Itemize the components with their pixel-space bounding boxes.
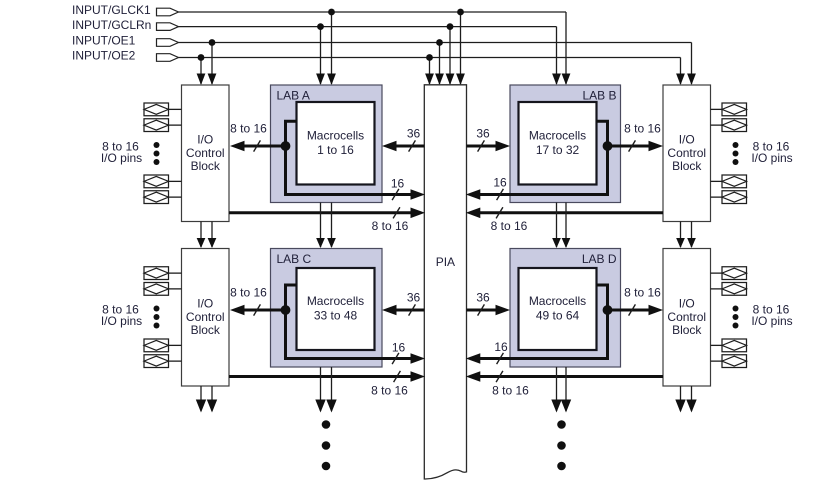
svg-text:Block: Block bbox=[672, 323, 702, 337]
slash on LAB D 16 bus bbox=[497, 353, 504, 364]
svg-text:16: 16 bbox=[493, 176, 507, 190]
junction dot GCLRn to PIA bbox=[447, 23, 454, 30]
bus 8-to-16 lower-right I/O block to PIA bbox=[466, 371, 663, 382]
svg-text:Macrocells: Macrocells bbox=[307, 294, 364, 308]
svg-text:LAB B: LAB B bbox=[582, 89, 616, 103]
bus 36 PIA to LAB D bbox=[467, 305, 511, 316]
wire upper-left pin 4 to I/O block bbox=[169, 196, 182, 198]
svg-text:I/O pins: I/O pins bbox=[101, 314, 142, 328]
svg-text:36: 36 bbox=[476, 291, 490, 305]
svg-text:36: 36 bbox=[407, 126, 421, 140]
I/O pin symbol upper-left 4 bbox=[144, 191, 169, 204]
wire INPUT/OE1 horizontal bbox=[179, 42, 692, 44]
svg-text:Macrocells: Macrocells bbox=[307, 128, 364, 142]
I/O Control Block top-right bbox=[663, 85, 711, 222]
I/O pin symbol upper-right 3 bbox=[722, 175, 747, 188]
LAB C bbox=[271, 249, 383, 368]
I/O pin symbol lower-right 3 bbox=[722, 339, 747, 352]
wire left I/O pass-down x=212 bbox=[208, 222, 217, 249]
svg-text:8 to 16: 8 to 16 bbox=[372, 219, 409, 233]
slash on 36 bus to LAB A bbox=[409, 140, 416, 151]
slash on LAB C 16 bus bbox=[392, 353, 399, 364]
wire branch GLCK1 to LAB A bbox=[327, 12, 336, 85]
ellipsis dots below LAB D bbox=[557, 420, 566, 470]
wire branch OE2 to PIA bbox=[425, 58, 434, 86]
slash on LAB B 8-to-16 bus bbox=[629, 140, 636, 151]
I/O pin symbol lower-left 2 bbox=[144, 283, 169, 296]
svg-text:LAB C: LAB C bbox=[277, 252, 312, 266]
svg-text:16: 16 bbox=[494, 340, 508, 354]
junction dot LAB B feedback bbox=[603, 141, 613, 151]
PIA block bbox=[424, 85, 466, 479]
wire branch OE1 to right I/O block bbox=[687, 43, 696, 86]
wire INPUT/GCLRn horizontal bbox=[179, 26, 557, 28]
svg-text:LAB A: LAB A bbox=[277, 89, 310, 103]
junction dot LAB D feedback bbox=[603, 305, 613, 315]
svg-text:Control: Control bbox=[186, 310, 225, 324]
macrocell box 17 to 32 bbox=[519, 102, 597, 185]
I/O Control Block bottom-right bbox=[663, 249, 711, 387]
label 8 to 16 I/O pins upper-left bbox=[101, 140, 142, 166]
ellipsis dots upper-left I/O pins bbox=[154, 142, 160, 165]
wire INPUT/GLCK1 horizontal bbox=[179, 11, 567, 13]
slash on left I/O to PIA bus bbox=[393, 207, 400, 218]
svg-text:36: 36 bbox=[407, 291, 421, 305]
svg-text:LAB D: LAB D bbox=[582, 252, 617, 266]
wire lower-right pin 3 to I/O block bbox=[711, 344, 723, 346]
svg-text:8 to 16: 8 to 16 bbox=[624, 286, 661, 300]
wire INPUT/OE2 horizontal bbox=[179, 57, 681, 59]
slash on lower-left I/O to PIA bus bbox=[394, 371, 401, 382]
wire branch GCLRn to PIA bbox=[446, 27, 455, 85]
slash on 36 bus to LAB D bbox=[478, 304, 485, 315]
wire right I/O pass-down x=680.5 bbox=[676, 222, 685, 249]
svg-text:33 to 48: 33 to 48 bbox=[314, 309, 358, 323]
wire lower-left pin 2 to I/O block bbox=[169, 288, 182, 290]
wire lower-right I/O output x=691.5 bbox=[686, 386, 696, 413]
LAB A bbox=[271, 85, 383, 203]
wire upper-right pin 2 to I/O block bbox=[711, 124, 723, 126]
bus 36 PIA to LAB B bbox=[467, 141, 511, 152]
macrocell box 1 to 16 bbox=[297, 102, 375, 185]
svg-text:I/O: I/O bbox=[197, 297, 213, 311]
wire branch GCLRn to LAB A bbox=[316, 27, 325, 85]
svg-text:8 to 16: 8 to 16 bbox=[230, 122, 267, 136]
LAB A feedback path bbox=[286, 121, 413, 194]
wire lower-left pin 1 to I/O block bbox=[169, 272, 182, 274]
svg-text:Control: Control bbox=[667, 310, 706, 324]
wire LAB C output x=320.5 bbox=[315, 367, 325, 413]
svg-text:1 to 16: 1 to 16 bbox=[317, 143, 354, 157]
svg-text:Control: Control bbox=[186, 146, 225, 160]
bus 8-to-16 LAB D macrocells to right I/O block bbox=[608, 305, 664, 316]
slash on right I/O to PIA bus bbox=[496, 207, 503, 218]
slash on LAB A 8-to-16 bus bbox=[254, 140, 261, 151]
wire lower-right pin 4 to I/O block bbox=[711, 360, 723, 362]
wire left I/O pass-down x=201 bbox=[197, 222, 206, 249]
LAB B feedback path bbox=[479, 121, 608, 194]
bus 8-to-16 lower-left I/O block to PIA bbox=[229, 371, 425, 382]
I/O pin symbol lower-left 3 bbox=[144, 339, 169, 352]
svg-text:PIA: PIA bbox=[436, 255, 455, 269]
svg-text:INPUT/OE2: INPUT/OE2 bbox=[72, 49, 136, 63]
svg-text:I/O: I/O bbox=[679, 133, 695, 147]
svg-text:I/O pins: I/O pins bbox=[101, 151, 142, 165]
input pin INPUT/OE2 bbox=[157, 54, 179, 62]
svg-text:8 to 16: 8 to 16 bbox=[491, 219, 528, 233]
slash on 36 bus to LAB C bbox=[409, 304, 416, 315]
I/O pin symbol upper-right 1 bbox=[722, 103, 747, 116]
arrowhead LAB D 16 bus into PIA bbox=[466, 353, 481, 364]
wire LAB D output x=556.5 bbox=[551, 367, 561, 413]
svg-text:INPUT/GLCK1: INPUT/GLCK1 bbox=[72, 3, 151, 17]
wire upper-left pin 1 to I/O block bbox=[169, 108, 182, 110]
junction dot OE2 to PIA bbox=[426, 54, 433, 61]
wire LAB A to LAB C pass-down x=320.5 bbox=[316, 203, 325, 249]
LAB B bbox=[510, 85, 621, 203]
wire upper-right pin 1 to I/O block bbox=[711, 108, 723, 110]
I/O Control Block top-left bbox=[182, 85, 230, 222]
svg-text:INPUT/GCLRn: INPUT/GCLRn bbox=[72, 18, 151, 32]
slash on lower-right I/O to PIA bus bbox=[496, 371, 503, 382]
label 8 to 16 I/O pins upper-right bbox=[751, 140, 792, 166]
junction dot GLCK1 to PIA bbox=[457, 9, 464, 16]
arrowhead LAB A 16 bus into PIA bbox=[411, 189, 426, 200]
svg-text:8 to 16: 8 to 16 bbox=[492, 384, 529, 398]
arrowhead LAB B 16 bus into PIA bbox=[466, 189, 481, 200]
wire branch OE2 to right I/O block bbox=[676, 58, 685, 86]
I/O pin symbol lower-right 2 bbox=[722, 283, 747, 296]
wire lower-left pin 4 to I/O block bbox=[169, 360, 182, 362]
I/O pin symbol lower-left 4 bbox=[144, 355, 169, 368]
wire upper-left pin 3 to I/O block bbox=[169, 180, 182, 182]
junction dot GCLRn to LAB A bbox=[317, 23, 324, 30]
svg-text:Block: Block bbox=[672, 159, 702, 173]
wire lower-right I/O output x=680.5 bbox=[675, 386, 685, 413]
wire LAB C output x=331.5 bbox=[326, 367, 336, 413]
svg-text:17 to 32: 17 to 32 bbox=[536, 143, 580, 157]
svg-text:I/O: I/O bbox=[679, 297, 695, 311]
I/O pin symbol upper-left 3 bbox=[144, 175, 169, 188]
svg-text:Macrocells: Macrocells bbox=[529, 128, 586, 142]
slash on LAB A 16 bus bbox=[392, 189, 399, 200]
I/O pin symbol lower-right 4 bbox=[722, 355, 747, 368]
wire lower-right pin 2 to I/O block bbox=[711, 288, 723, 290]
junction dot LAB A feedback bbox=[281, 141, 291, 151]
svg-text:Control: Control bbox=[667, 146, 706, 160]
ellipsis dots lower-right I/O pins bbox=[733, 306, 739, 329]
svg-text:Macrocells: Macrocells bbox=[529, 294, 586, 308]
wire upper-right pin 3 to I/O block bbox=[711, 180, 723, 182]
I/O pin symbol upper-right 4 bbox=[722, 191, 747, 204]
input pin INPUT/GCLRn bbox=[157, 23, 179, 31]
wire branch OE1 to left I/O block bbox=[208, 43, 217, 86]
bus 8-to-16 LAB C macrocells to left I/O block bbox=[230, 305, 286, 316]
svg-text:I/O: I/O bbox=[197, 133, 213, 147]
slash on LAB B 16 bus bbox=[497, 189, 504, 200]
I/O pin symbol upper-left 2 bbox=[144, 119, 169, 132]
junction dot OE2 to left I/O block bbox=[198, 54, 205, 61]
wire branch GLCK1 to PIA bbox=[456, 12, 465, 85]
svg-text:Block: Block bbox=[191, 159, 221, 173]
I/O pin symbol lower-right 1 bbox=[722, 267, 747, 280]
LAB D feedback path bbox=[479, 285, 608, 359]
slash on 36 bus to LAB B bbox=[478, 140, 485, 151]
I/O pin symbol upper-right 2 bbox=[722, 119, 747, 132]
bus 8-to-16 LAB B macrocells to right I/O block bbox=[608, 141, 664, 152]
label 8 to 16 I/O pins lower-left bbox=[101, 303, 142, 329]
bus 8-to-16 right I/O block to PIA bbox=[466, 208, 663, 219]
ellipsis dots lower-left I/O pins bbox=[154, 306, 160, 329]
wire LAB B to LAB D pass-down x=566 bbox=[562, 203, 571, 249]
svg-text:Block: Block bbox=[191, 323, 221, 337]
macrocell box 49 to 64 bbox=[519, 268, 597, 350]
wire lower-left I/O output x=212 bbox=[207, 386, 217, 413]
junction dot LAB C feedback bbox=[281, 305, 291, 315]
junction dot OE1 to left I/O block bbox=[209, 39, 216, 46]
svg-text:8 to 16: 8 to 16 bbox=[230, 286, 267, 300]
wire branch OE2 to left I/O block bbox=[197, 58, 206, 86]
input pin INPUT/GLCK1 bbox=[157, 8, 179, 16]
I/O pin symbol lower-left 1 bbox=[144, 267, 169, 280]
wire LAB B to LAB D pass-down x=556.5 bbox=[552, 203, 561, 249]
junction dot GLCK1 to LAB A bbox=[328, 9, 335, 16]
junction dot OE1 to PIA bbox=[436, 39, 443, 46]
wire lower-left I/O output x=201 bbox=[196, 386, 206, 413]
wire LAB D output x=566 bbox=[561, 367, 571, 413]
ellipsis dots upper-right I/O pins bbox=[733, 142, 739, 165]
bus 36 PIA to LAB A bbox=[382, 141, 424, 152]
wire upper-right pin 4 to I/O block bbox=[711, 196, 723, 198]
wire branch GCLRn to LAB B bbox=[552, 27, 561, 85]
bus 36 PIA to LAB C bbox=[382, 305, 424, 316]
I/O pin symbol upper-left 1 bbox=[144, 103, 169, 116]
ellipsis dots below LAB C bbox=[322, 420, 331, 470]
input pin INPUT/OE1 bbox=[157, 39, 179, 47]
bus 8-to-16 LAB A macrocells to left I/O block bbox=[230, 141, 286, 152]
slash on LAB D 8-to-16 bus bbox=[629, 304, 636, 315]
svg-text:I/O pins: I/O pins bbox=[751, 151, 792, 165]
svg-text:36: 36 bbox=[476, 126, 490, 140]
wire upper-left pin 2 to I/O block bbox=[169, 124, 182, 126]
macrocell box 33 to 48 bbox=[297, 268, 375, 350]
I/O Control Block bottom-left bbox=[182, 249, 230, 387]
svg-text:8 to 16: 8 to 16 bbox=[624, 122, 661, 136]
wire LAB A to LAB C pass-down x=331.5 bbox=[327, 203, 336, 249]
LAB C feedback path bbox=[286, 285, 413, 359]
label 8 to 16 I/O pins lower-right bbox=[751, 303, 792, 329]
LAB D bbox=[510, 249, 621, 368]
svg-text:49 to 64: 49 to 64 bbox=[536, 309, 580, 323]
wire right I/O pass-down x=691.5 bbox=[687, 222, 696, 249]
svg-text:8 to 16: 8 to 16 bbox=[371, 384, 408, 398]
wire branch OE1 to PIA bbox=[435, 43, 444, 86]
wire lower-left pin 3 to I/O block bbox=[169, 344, 182, 346]
svg-text:I/O pins: I/O pins bbox=[751, 314, 792, 328]
svg-text:16: 16 bbox=[391, 176, 405, 190]
arrowhead LAB C 16 bus into PIA bbox=[411, 353, 426, 364]
svg-text:16: 16 bbox=[392, 341, 406, 355]
slash on LAB C 8-to-16 bus bbox=[254, 304, 261, 315]
svg-text:INPUT/OE1: INPUT/OE1 bbox=[72, 34, 136, 48]
wire branch GLCK1 to LAB B bbox=[562, 12, 571, 85]
bus 8-to-16 left I/O block to PIA bbox=[229, 208, 425, 219]
wire lower-right pin 1 to I/O block bbox=[711, 272, 723, 274]
